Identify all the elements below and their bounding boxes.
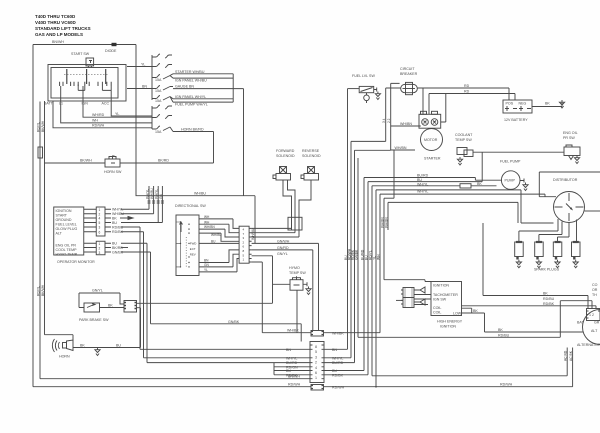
svg-text:FUEL PUMP WH/YL: FUEL PUMP WH/YL: [175, 102, 208, 106]
svg-text:BREAKER: BREAKER: [400, 72, 418, 76]
svg-text:WH: WH: [204, 220, 210, 224]
wire breaker to battery RD: [417, 88, 509, 100]
ignition switch box: [48, 65, 126, 102]
svg-text:TACHOMETER: TACHOMETER: [433, 293, 458, 297]
svg-text:PR SW: PR SW: [563, 136, 575, 140]
svg-text:AC BK: AC BK: [569, 350, 573, 361]
svg-text:BK/RD: BK/RD: [112, 246, 123, 250]
svg-text:RD/BK: RD/BK: [543, 302, 555, 306]
svg-text:3: 3: [99, 226, 101, 230]
wire breaker left to bus: [351, 88, 401, 141]
svg-text:4: 4: [99, 217, 101, 221]
bus verticals: [347, 89, 349, 350]
svg-text:GN/WH: GN/WH: [277, 239, 290, 243]
svg-text:START: START: [56, 214, 68, 218]
svg-text:IGNITION: IGNITION: [56, 209, 72, 213]
svg-text:BK/WH: BK/WH: [41, 120, 45, 132]
svg-text:COOL TEMP: COOL TEMP: [56, 248, 78, 252]
bracket: [147, 363, 274, 375]
svg-text:COIL: COIL: [433, 306, 441, 310]
svg-text:WH: WH: [92, 119, 98, 123]
svg-text:CO: CO: [592, 283, 598, 287]
fuse block bus 2: [151, 106, 153, 129]
wire RD/BK: [462, 306, 597, 309]
svg-text:START SW: START SW: [71, 52, 90, 56]
right margin text: [592, 283, 598, 297]
svg-text:WH/RD: WH/RD: [92, 113, 105, 117]
fuse F1: [152, 54, 172, 58]
svg-text:1: 1: [99, 242, 101, 246]
svg-text:ALTERNATOR: ALTERNATOR: [577, 343, 600, 347]
wire solenoid to battery RD: [429, 94, 515, 101]
svg-text:RD/YL: RD/YL: [37, 286, 41, 296]
wire GN/BK down long: [121, 252, 301, 342]
ground at horn: [95, 348, 100, 356]
svg-text:FWD: FWD: [190, 242, 197, 246]
svg-text:TEMP SW: TEMP SW: [455, 138, 472, 142]
svg-text:HORN: HORN: [59, 355, 70, 359]
svg-text:BU: BU: [116, 344, 121, 348]
wire RD/BU long: [560, 301, 592, 338]
svg-text:SOLENOID: SOLENOID: [302, 154, 321, 158]
wire GN/RD: [252, 250, 313, 331]
svg-text:V40D THRU VC60D: V40D THRU VC60D: [35, 20, 77, 25]
svg-text:NEG: NEG: [519, 102, 527, 106]
wire WH/YL to distributor: [376, 190, 554, 223]
svg-text:IGN SW: IGN SW: [433, 298, 447, 302]
svg-text:2: 2: [99, 247, 101, 251]
svg-text:DIODE: DIODE: [105, 49, 117, 53]
svg-text:MOTOR: MOTOR: [424, 138, 438, 142]
wire RD/WH: [53, 101, 152, 128]
svg-text:WH/BN: WH/BN: [400, 122, 412, 126]
svg-text:GN/YL: GN/YL: [92, 289, 103, 293]
wires directional sw to connector: [199, 219, 239, 229]
horn switch: [45, 162, 106, 164]
wire WH/RD: [83, 98, 152, 117]
wire BK/RD stub: [121, 247, 128, 249]
svg-text:BU/RD: BU/RD: [332, 361, 344, 365]
svg-text:15A: 15A: [155, 78, 162, 82]
svg-text:REV: REV: [190, 253, 196, 257]
svg-text:BU/RD: BU/RD: [417, 174, 429, 178]
svg-text:BK: BK: [473, 309, 478, 313]
operator monitor connector B: [96, 241, 105, 255]
module connectors: [403, 288, 414, 298]
operator monitor connector A: [96, 207, 105, 236]
fuse F7: [152, 115, 172, 119]
wire BU to pump: [368, 152, 482, 181]
svg-text:CIRCUIT: CIRCUIT: [400, 67, 415, 71]
svg-text:15A: 15A: [155, 99, 162, 103]
svg-text:BN: BN: [142, 85, 147, 89]
svg-text:STANDARD LIFT TRUCKS: STANDARD LIFT TRUCKS: [35, 26, 91, 31]
svg-text:BN/WH: BN/WH: [52, 40, 64, 44]
svg-text:GROUND: GROUND: [56, 218, 72, 222]
ground battery: [561, 102, 563, 107]
svg-text:BK: BK: [80, 344, 85, 348]
wire coil 1: [462, 308, 472, 313]
wire relay to horn: [137, 308, 141, 348]
svg-text:6: 6: [315, 371, 317, 375]
svg-text:TH: TH: [592, 293, 597, 297]
wire fuel pump WH/YL: [173, 101, 233, 103]
wires monitor to gang: [121, 209, 162, 222]
svg-text:WH/BU: WH/BU: [211, 233, 222, 237]
fuse resistor on rail: [38, 147, 43, 158]
svg-text:ENG OIL: ENG OIL: [563, 131, 578, 135]
wires connector to solenoid pins: [252, 228, 299, 237]
svg-text:BK: BK: [112, 217, 117, 221]
svg-text:1: 1: [315, 376, 317, 380]
fuse F2: [127, 64, 172, 68]
wire BATT rail down to horn: [44, 101, 46, 335]
svg-text:T40D THRU TC60D: T40D THRU TC60D: [35, 14, 76, 19]
svg-text:2 2: 2 2: [387, 118, 391, 123]
svg-text:RD/WH: RD/WH: [332, 386, 345, 390]
svg-text:LOW: LOW: [453, 312, 462, 316]
svg-text:BK: BK: [477, 182, 482, 186]
svg-text:TEMP SW: TEMP SW: [289, 271, 306, 275]
svg-text:FUEL LVL SW: FUEL LVL SW: [352, 74, 375, 78]
svg-text:FUEL PUMP: FUEL PUMP: [500, 160, 521, 164]
svg-text:GAS AND LP MODELS: GAS AND LP MODELS: [35, 32, 83, 37]
svg-text:BK/WH: BK/WH: [80, 159, 92, 163]
svg-text:BK: BK: [498, 328, 503, 332]
alternator: [583, 310, 600, 345]
wire GN/WH: [252, 243, 319, 330]
park brake switch: [84, 303, 100, 312]
svg-text:REVERSE: REVERSE: [302, 149, 320, 153]
wire BU down to bracket: [121, 243, 147, 362]
svg-text:15A: 15A: [155, 130, 162, 134]
svg-text:COOLANT: COOLANT: [455, 133, 473, 137]
wires solenoid to battery: [423, 88, 446, 122]
svg-text:FUEL LEVEL: FUEL LEVEL: [56, 223, 77, 227]
spark plug 4: [572, 242, 581, 257]
svg-text:12V BATTERY: 12V BATTERY: [504, 118, 528, 122]
svg-text:YL: YL: [204, 268, 208, 272]
ignition module: [431, 282, 462, 316]
svg-text:BAT: BAT: [577, 321, 585, 325]
svg-text:8: 8: [315, 345, 317, 349]
svg-text:1: 1: [99, 208, 101, 212]
svg-text:YL: YL: [141, 63, 145, 67]
svg-text:BN: BN: [204, 259, 209, 263]
svg-text:BU: BU: [112, 221, 117, 225]
svg-text:STARTER WH/BU: STARTER WH/BU: [175, 70, 205, 74]
alternator connector: [587, 309, 600, 321]
wire GN/YL: [252, 256, 273, 303]
svg-text:ENG OIL PR: ENG OIL PR: [56, 244, 77, 248]
wire ign panel WH/YL: [173, 98, 233, 100]
wire ign panel WH/BU: [173, 77, 233, 79]
svg-text:HORN SW: HORN SW: [104, 170, 122, 174]
svg-text:IGN PANEL WH/BU: IGN PANEL WH/BU: [175, 78, 207, 82]
fuse F5 15A: [152, 96, 173, 103]
fuse F3 15A: [152, 74, 173, 79]
svg-text:3 4: 3 4: [382, 118, 386, 123]
svg-text:OR: OR: [592, 288, 598, 292]
wires bus to connector right: [324, 349, 368, 375]
fuse F6: [152, 105, 172, 109]
svg-text:BN: BN: [332, 348, 337, 352]
wire starter WH/BU: [173, 73, 233, 75]
svg-text:HORN BK/RD: HORN BK/RD: [181, 128, 204, 132]
svg-text:5: 5: [99, 221, 101, 225]
wire ACC YL: [111, 90, 152, 116]
svg-text:WH/YL: WH/YL: [417, 190, 428, 194]
starter motor: [421, 129, 443, 151]
wire GN/YL long: [137, 302, 273, 304]
svg-text:RD/WH: RD/WH: [500, 383, 513, 387]
svg-text:BN: BN: [286, 348, 291, 352]
solenoid connector: [288, 217, 302, 230]
svg-text:WH/BU: WH/BU: [150, 188, 154, 199]
svg-text:6: 6: [99, 231, 101, 235]
wire monitor RD/BU down: [121, 227, 140, 349]
svg-text:IGN: IGN: [82, 102, 89, 106]
svg-text:WH/BK: WH/BK: [332, 332, 344, 336]
central connector strip: [310, 342, 324, 383]
svg-text:DIRECTIONAL SW: DIRECTIONAL SW: [175, 204, 206, 208]
wire gauge BN: [173, 89, 244, 196]
svg-text:FORWARD: FORWARD: [276, 149, 295, 153]
svg-text:RD/WH: RD/WH: [288, 383, 301, 387]
wire RD/BK bottom long: [566, 348, 568, 376]
svg-text:4: 4: [315, 366, 317, 370]
svg-text:GR: GR: [594, 321, 600, 325]
horn: [45, 335, 74, 341]
svg-text:GN/BK: GN/BK: [355, 249, 359, 260]
wire BN/WH bottom: [40, 378, 310, 380]
wire BN/WH top feed: [33, 44, 136, 46]
spark plug 3: [553, 242, 562, 257]
wire bridge: [232, 74, 234, 102]
wire coil BK to alternator BAT: [462, 313, 584, 332]
svg-text:WH: WH: [377, 254, 381, 260]
svg-text:WH/BU: WH/BU: [194, 192, 206, 196]
svg-text:IGN PANEL WH/YL: IGN PANEL WH/YL: [175, 95, 206, 99]
svg-text:BATT: BATT: [44, 102, 54, 106]
svg-text:GN/RD: GN/RD: [277, 246, 289, 250]
svg-text:WH: WH: [204, 215, 210, 219]
fuse F4 15A: [127, 86, 173, 91]
spark plug 2: [535, 242, 544, 257]
svg-text:2: 2: [315, 361, 317, 365]
wires solenoids to connector: [283, 180, 311, 217]
wire fuel sw to bus: [348, 88, 360, 90]
svg-text:WH/YL: WH/YL: [417, 182, 428, 186]
svg-text:WH/BK: WH/BK: [287, 329, 299, 333]
ignition switch contacts: [60, 82, 74, 86]
svg-text:COIL: COIL: [433, 311, 441, 315]
fuse F8 15A horn: [152, 126, 173, 132]
svg-text:RD/YL: RD/YL: [37, 122, 41, 132]
svg-text:BK/RD: BK/RD: [158, 159, 169, 163]
svg-text:GN/BK: GN/BK: [112, 251, 124, 255]
horn relay: [124, 301, 137, 313]
wire hymo down WH/BK: [296, 290, 298, 333]
wire WH/BN to starter: [391, 125, 421, 127]
svg-text:AC RD: AC RD: [564, 350, 568, 361]
svg-text:RD/WH: RD/WH: [92, 124, 105, 128]
inline connector RD/WH: [311, 385, 324, 391]
title text block: [35, 14, 91, 37]
diode D1: [112, 43, 117, 46]
svg-text:15A: 15A: [155, 89, 162, 93]
svg-text:ALT: ALT: [56, 232, 63, 236]
wire BK to alternator: [483, 223, 588, 309]
svg-text:RD/BU: RD/BU: [112, 226, 124, 230]
wire module row: [384, 197, 394, 199]
wire WH: [61, 98, 152, 123]
wire distributor right: [585, 210, 600, 212]
wires into connector left: [140, 349, 310, 375]
svg-text:BK: BK: [543, 292, 548, 296]
svg-text:ACC: ACC: [102, 102, 110, 106]
svg-text:STARTER: STARTER: [424, 157, 441, 161]
svg-text:WH/YL: WH/YL: [332, 357, 343, 361]
wire BU/RD to coolant: [364, 178, 502, 181]
wire rail RD/YL: [39, 102, 41, 379]
operator monitor box: [54, 207, 84, 255]
svg-text:POS: POS: [506, 102, 514, 106]
connector gang 4 pigtails: [149, 186, 162, 223]
svg-text:WH/YL: WH/YL: [146, 189, 150, 199]
svg-text:GAUGE BN: GAUGE BN: [175, 85, 194, 89]
wire to distributor upper: [380, 172, 600, 197]
svg-text:WH/BN: WH/BN: [204, 225, 215, 229]
svg-text:WH/YL: WH/YL: [286, 357, 297, 361]
wire horn BK/RD: [120, 132, 214, 164]
svg-text:RD/BU: RD/BU: [498, 333, 510, 337]
svg-text:HYMO TEMP: HYMO TEMP: [56, 253, 78, 257]
inline connector WH/BK: [311, 331, 324, 337]
wire ground arrow monitor: [120, 217, 133, 220]
wire WH/YL inline conn to pump: [372, 185, 497, 187]
svg-text:RD/BU: RD/BU: [543, 297, 555, 301]
wire WH/BU feed to directional sw: [136, 45, 255, 196]
svg-text:ALT: ALT: [591, 329, 598, 333]
svg-text:IGNITION: IGNITION: [433, 284, 449, 288]
wires distributor to spark plugs: [519, 219, 558, 242]
frame rail bottom: [33, 45, 573, 387]
svg-text:PUMP: PUMP: [505, 179, 516, 183]
svg-text:HYMO: HYMO: [289, 266, 300, 270]
svg-text:BK: BK: [108, 304, 113, 308]
spark plug 1: [515, 242, 524, 257]
svg-text:3: 3: [315, 356, 317, 360]
svg-text:IGNITION: IGNITION: [440, 325, 456, 329]
svg-text:PARK BRAKE SW: PARK BRAKE SW: [79, 318, 109, 322]
svg-text:GN/BK: GN/BK: [228, 320, 240, 324]
svg-text:RD: RD: [464, 90, 470, 94]
svg-text:RD: RD: [464, 84, 470, 88]
svg-text:HIGH ENERGY: HIGH ENERGY: [437, 320, 463, 324]
svg-text:GN/YL: GN/YL: [277, 252, 288, 256]
wire row 202: [388, 202, 518, 223]
wire monitor RD/BK down: [121, 232, 144, 358]
svg-text:RD/BK: RD/BK: [286, 373, 298, 377]
svg-text:BK/WH: BK/WH: [41, 284, 45, 296]
directional sw internals: [185, 237, 187, 267]
svg-text:YL: YL: [115, 112, 119, 116]
svg-text:BK: BK: [545, 102, 550, 106]
bus vertical labels: [344, 248, 381, 260]
svg-text:GN: GN: [204, 263, 209, 267]
svg-text:RD/BK: RD/BK: [332, 373, 344, 377]
svg-text:3: 3: [99, 251, 101, 255]
svg-text:1 2: 1 2: [589, 313, 594, 317]
svg-text:SPARK PLUGS: SPARK PLUGS: [534, 268, 560, 272]
svg-text:GN: GN: [159, 194, 163, 199]
wire module feed: [393, 150, 395, 198]
svg-text:WH/BN: WH/BN: [395, 146, 407, 150]
svg-text:WH/BU: WH/BU: [251, 228, 255, 240]
svg-text:OPERATOR MONITOR: OPERATOR MONITOR: [57, 260, 95, 264]
svg-text:SOLENOID: SOLENOID: [276, 154, 295, 158]
svg-text:DISTRIBUTOR: DISTRIBUTOR: [553, 178, 578, 182]
starter solenoid: [419, 114, 441, 128]
svg-text:BU: BU: [211, 240, 216, 244]
svg-text:ECT: ECT: [190, 247, 196, 251]
fuse block bus 1: [151, 55, 153, 100]
wire battery to ground BK: [532, 106, 562, 108]
12V battery: [503, 100, 532, 113]
svg-text:5: 5: [315, 350, 317, 354]
svg-text:GLOW PLUG: GLOW PLUG: [56, 227, 78, 231]
directional connector: [239, 226, 249, 263]
